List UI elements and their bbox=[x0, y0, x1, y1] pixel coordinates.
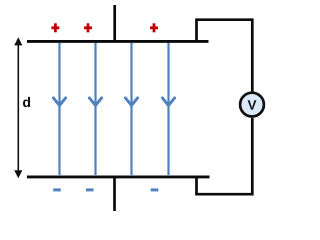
bottom plate (negative plate) bbox=[27, 175, 210, 178]
positive charge + 3 bbox=[150, 23, 158, 32]
negative charge - 2 bbox=[86, 188, 94, 191]
top plate (positive plate) bbox=[27, 40, 209, 43]
field line E4 bbox=[162, 43, 174, 175]
negative charge - 1 bbox=[53, 188, 61, 191]
field line E2 bbox=[89, 43, 101, 175]
voltmeter V bbox=[240, 93, 264, 117]
positive charge + 2 bbox=[84, 23, 92, 32]
negative charge - 3 bbox=[151, 188, 159, 191]
field line E1 bbox=[53, 43, 65, 175]
wire: top terminal stem bbox=[113, 5, 116, 41]
field line E3 bbox=[125, 43, 137, 175]
wire: bottom plate to voltmeter bbox=[197, 118, 253, 194]
dimension arrow d (plate separation) bbox=[14, 37, 22, 178]
positive charge + 1 bbox=[51, 23, 59, 32]
label d bbox=[23, 97, 30, 107]
wire: top plate to voltmeter bbox=[197, 20, 253, 92]
wire: bottom terminal stem bbox=[113, 177, 116, 211]
